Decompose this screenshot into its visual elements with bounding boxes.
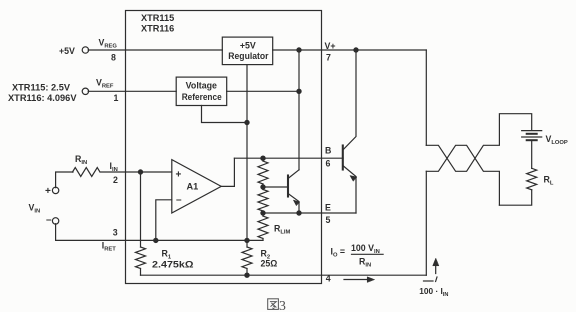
resistor R1 xyxy=(136,247,146,269)
Voltage Reference box xyxy=(176,77,227,105)
wire pin 2 IIN to A1 xyxy=(101,171,172,173)
node R2 bottom junction xyxy=(245,273,249,277)
svg-text:25Ω: 25Ω xyxy=(261,259,278,269)
svg-text:1: 1 xyxy=(114,93,119,103)
svg-text:5: 5 xyxy=(326,215,331,225)
resistor base upper xyxy=(262,158,264,161)
svg-text:VLOOP: VLOOP xyxy=(546,134,568,146)
svg-text:3: 3 xyxy=(279,298,286,312)
arrow IO direction xyxy=(344,279,369,281)
wire pin 8 VREG xyxy=(88,49,222,51)
svg-text:VREF: VREF xyxy=(96,78,114,90)
+5V Regulator box xyxy=(222,37,272,65)
caption figure 3 (hanzi tu drawn as strokes) xyxy=(268,299,279,310)
svg-text:8: 8 xyxy=(111,53,116,63)
node A1 inverting branch junction xyxy=(154,238,158,242)
resistor RL xyxy=(527,168,537,190)
terminal VIN minus xyxy=(52,218,58,224)
node R2 top junction xyxy=(245,238,249,242)
wire VREF common xyxy=(202,106,248,123)
svg-text:XTR116: 4.096V: XTR116: 4.096V xyxy=(8,93,77,103)
svg-text:VREG: VREG xyxy=(99,38,118,50)
wire VIN- pin 3 IRET xyxy=(56,224,263,241)
resistor RIN xyxy=(73,168,101,177)
svg-text:100 · IIN: 100 · IIN xyxy=(419,286,448,298)
node Q1 base junction xyxy=(261,185,265,189)
arrow loop current dashed xyxy=(424,280,434,282)
svg-text:3: 3 xyxy=(113,228,118,238)
svg-text:V+: V+ xyxy=(325,41,336,51)
svg-text:IIN: IIN xyxy=(110,161,118,173)
svg-text:B: B xyxy=(325,146,331,156)
wire VREF supply xyxy=(227,90,299,92)
node IIN / R1 junction xyxy=(138,170,142,174)
svg-text:+: + xyxy=(45,186,51,197)
wire loop supply down xyxy=(425,50,427,145)
svg-text:2.475kΩ: 2.475kΩ xyxy=(152,260,194,270)
op-amp A1 xyxy=(172,160,221,213)
svg-text:2: 2 xyxy=(113,175,118,185)
svg-text:XTR115: 2.5V: XTR115: 2.5V xyxy=(12,83,70,93)
svg-text:Voltage: Voltage xyxy=(186,81,217,91)
transistor Q1 collector xyxy=(288,170,299,179)
svg-text:+5V: +5V xyxy=(59,46,75,56)
resistor base lower xyxy=(262,187,264,190)
svg-text:–: – xyxy=(176,195,182,206)
transistor Q2 collector xyxy=(343,50,356,150)
svg-text:RIN: RIN xyxy=(359,257,371,269)
svg-text:Regulator: Regulator xyxy=(228,51,269,61)
wire RL bottom loop xyxy=(499,190,531,205)
wire R2 top xyxy=(246,240,248,247)
svg-text:XTR116: XTR116 xyxy=(141,23,174,33)
wire V+ rail pin 7 xyxy=(273,49,427,51)
svg-text:IRET: IRET xyxy=(102,241,117,253)
wire loop return up xyxy=(425,171,427,275)
node VREF supply junction xyxy=(297,89,301,93)
wire pin 1 VREF xyxy=(88,90,176,92)
node Q2 collector junction xyxy=(354,48,358,52)
svg-text:Reference: Reference xyxy=(182,92,222,102)
transistor Q1 base bar xyxy=(287,176,289,197)
terminal VIN plus xyxy=(52,187,58,193)
wire A1 output xyxy=(221,158,234,186)
node VREF common junction xyxy=(245,120,249,124)
svg-text:7: 7 xyxy=(326,53,331,63)
wire Q1 base xyxy=(263,186,287,188)
wire base rail pin 6 B xyxy=(234,157,343,159)
transistor Q1 emitter xyxy=(288,194,299,214)
svg-text:RL: RL xyxy=(544,175,554,187)
wire R1 bottom xyxy=(140,269,142,276)
transistor Q2 emitter xyxy=(343,166,356,214)
wire output rail pin 4 xyxy=(141,274,427,276)
svg-text:RLIM: RLIM xyxy=(274,224,291,236)
wire R1 top xyxy=(140,172,142,247)
wire A1 inverting input xyxy=(156,200,172,241)
svg-text:E: E xyxy=(325,203,331,213)
svg-text:A1: A1 xyxy=(187,182,199,192)
wire Q1 collector line xyxy=(298,50,300,170)
svg-text:+5V: +5V xyxy=(240,40,256,50)
twisted pair strand B xyxy=(426,145,499,205)
twisted pair strand A xyxy=(426,114,531,172)
wire R2 bottom xyxy=(246,269,248,276)
svg-text:+: + xyxy=(176,170,182,181)
node V+ / VREF supply junction xyxy=(297,48,301,52)
svg-text:4: 4 xyxy=(326,274,331,284)
svg-text:6: 6 xyxy=(326,159,331,169)
wire battery to RL xyxy=(531,141,533,168)
terminal VREF xyxy=(82,88,88,94)
svg-text:–: – xyxy=(46,215,52,226)
svg-text:VIN: VIN xyxy=(29,203,41,215)
terminal +5V xyxy=(82,47,88,53)
svg-text:RIN: RIN xyxy=(75,154,87,166)
wire VIN+ to RIN xyxy=(56,172,73,188)
node base chain top junction xyxy=(261,156,265,160)
resistor R2 xyxy=(242,247,252,269)
svg-text:XTR115: XTR115 xyxy=(141,13,174,23)
node emitter rail junction xyxy=(261,211,265,215)
wire emitter rail pin 5 E xyxy=(263,212,356,214)
svg-text:100 VIN: 100 VIN xyxy=(351,243,380,255)
IC box XTR115/XTR116 outline xyxy=(126,11,322,284)
battery VLOOP plates xyxy=(522,130,542,132)
transistor Q2 base bar xyxy=(342,146,344,170)
resistor RLIM xyxy=(262,213,264,216)
wire regulator common vertical xyxy=(246,65,248,241)
svg-text:IO =: IO = xyxy=(331,247,346,259)
node Q1 emitter junction xyxy=(297,211,301,215)
